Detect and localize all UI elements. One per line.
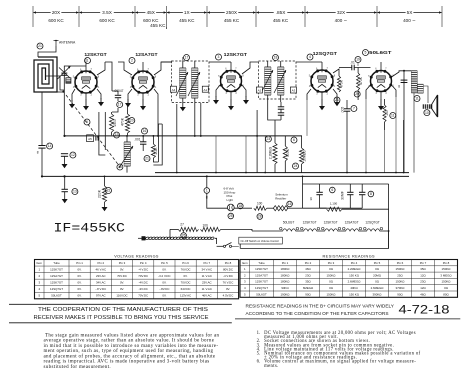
svg-text:100: 100	[257, 202, 263, 206]
svg-text:500K: 500K	[286, 148, 290, 157]
svg-text:A3: A3	[292, 89, 296, 93]
svg-text:1500: 1500	[113, 119, 117, 127]
svg-text:A1: A1	[203, 88, 207, 92]
svg-text:19: 19	[356, 58, 360, 62]
svg-text:-3V.DC: -3V.DC	[139, 287, 148, 291]
svg-text:7: 7	[353, 107, 355, 111]
svg-text:3 MEGΩ: 3 MEGΩ	[440, 273, 452, 277]
svg-text:Pin 3: Pin 3	[119, 261, 126, 265]
svg-text:0V.: 0V.	[226, 287, 230, 291]
svg-text:Tube: Tube	[53, 261, 60, 265]
svg-text:12SK7GT: 12SK7GT	[50, 281, 63, 285]
svg-text:600 KC: 600 KC	[48, 18, 64, 23]
svg-text:1X: 1X	[184, 10, 191, 15]
svg-text:455 KC: 455 KC	[150, 23, 166, 28]
svg-text:A5: A5	[88, 137, 92, 141]
svg-text:2.2MEGΩ: 2.2MEGΩ	[348, 267, 362, 271]
svg-text:19: 19	[115, 133, 119, 137]
svg-text:.005: .005	[340, 107, 344, 114]
svg-text:Rectifier: Rectifier	[275, 196, 286, 200]
svg-text:23V.AC: 23V.AC	[202, 281, 212, 285]
svg-text:220K: 220K	[97, 189, 101, 198]
svg-text:1: 1	[87, 59, 89, 63]
svg-text:VOLTAGE READINGS: VOLTAGE READINGS	[114, 254, 159, 258]
svg-text:RESISTANCE READINGS IN THE B+: RESISTANCE READINGS IN THE B+ CIRCUITS M…	[246, 304, 395, 309]
svg-text:28: 28	[258, 215, 262, 219]
svg-text:150KΩ: 150KΩ	[327, 292, 337, 296]
svg-text:4-72-18: 4-72-18	[399, 303, 450, 316]
svg-text:150KΩ: 150KΩ	[396, 280, 406, 284]
svg-text:35Ω: 35Ω	[305, 280, 311, 284]
svg-text:470K: 470K	[121, 117, 125, 126]
svg-text:24: 24	[294, 164, 298, 168]
svg-text:ments.: ments.	[264, 364, 279, 369]
svg-text:6MEGΩ: 6MEGΩ	[303, 286, 314, 290]
svg-text:12SK7GT: 12SK7GT	[324, 221, 338, 225]
svg-text:150: 150	[385, 110, 389, 116]
svg-text:12SA7GT: 12SA7GT	[255, 273, 268, 277]
svg-text:THE COOPERATION OF THE MANUFAC: THE COOPERATION OF THE MANUFACTURER OF T…	[38, 307, 209, 313]
svg-text:190KΩ: 190KΩ	[281, 292, 291, 296]
svg-text:25Ω: 25Ω	[397, 273, 403, 277]
svg-text:23Ω: 23Ω	[305, 273, 311, 277]
svg-text:470K: 470K	[340, 79, 344, 88]
svg-text:.001: .001	[134, 138, 140, 142]
svg-text:30: 30	[309, 197, 313, 201]
svg-text:150KΩ: 150KΩ	[396, 267, 406, 271]
svg-text:12SK7GT: 12SK7GT	[50, 268, 63, 272]
svg-text:116V.DC: 116V.DC	[116, 294, 127, 298]
svg-text:20: 20	[130, 119, 134, 123]
svg-text:250X: 250X	[226, 10, 238, 15]
svg-text:34 V.AC: 34 V.AC	[202, 268, 213, 272]
svg-text:11 V.AC: 11 V.AC	[202, 274, 212, 278]
svg-text:0V.: 0V.	[184, 274, 188, 278]
svg-text:0V.: 0V.	[120, 281, 124, 285]
svg-text:400 ∼: 400 ∼	[335, 18, 348, 23]
svg-text:470K: 470K	[359, 76, 363, 85]
svg-text:ACCORDING TO THE CONDITION OF: ACCORDING TO THE CONDITION OF THE FILTER…	[246, 311, 389, 316]
svg-text:ANTENNA: ANTENNA	[59, 41, 76, 45]
svg-text:0V.: 0V.	[162, 281, 166, 285]
svg-text:12SA7GT: 12SA7GT	[135, 52, 157, 57]
svg-text:20X: 20X	[52, 10, 61, 15]
svg-text:150KΩ: 150KΩ	[442, 280, 452, 284]
svg-text:4.5V.DC: 4.5V.DC	[223, 294, 234, 298]
svg-text:Pin 6: Pin 6	[397, 261, 404, 265]
svg-text:113V.AC: 113V.AC	[180, 294, 191, 298]
svg-text:45X: 45X	[147, 10, 156, 15]
svg-text:12SQ7GT: 12SQ7GT	[313, 51, 338, 56]
svg-text:2.6MEGΩ: 2.6MEGΩ	[348, 280, 362, 284]
svg-text:70V.DC: 70V.DC	[181, 281, 191, 285]
svg-text:.85X: .85X	[276, 10, 287, 15]
svg-text:0V.: 0V.	[120, 268, 124, 272]
svg-text:5: 5	[365, 51, 367, 55]
svg-text:0V.: 0V.	[162, 268, 166, 272]
svg-text:Pin 4: Pin 4	[351, 261, 358, 265]
svg-text:11 V.AC: 11 V.AC	[202, 287, 212, 291]
svg-text:12Ω: 12Ω	[420, 286, 426, 290]
svg-text:50L6GT: 50L6GT	[256, 292, 267, 296]
svg-text:8: 8	[37, 151, 39, 155]
svg-text:4: 4	[309, 55, 311, 59]
svg-text:.01: .01	[350, 61, 355, 65]
svg-text:180KΩ: 180KΩ	[281, 273, 291, 277]
svg-text:12SK7GT: 12SK7GT	[303, 221, 317, 225]
svg-text:46Ω: 46Ω	[305, 267, 311, 271]
svg-text:12SA7GT: 12SA7GT	[50, 274, 63, 278]
svg-text:8: 8	[370, 192, 372, 196]
svg-text:0V.: 0V.	[78, 287, 82, 291]
svg-text:Pin 7: Pin 7	[204, 261, 211, 265]
svg-text:16: 16	[288, 202, 292, 206]
svg-text:RECEIVER MAKES IT POSSIBLE TO: RECEIVER MAKES IT POSSIBLE TO BRING YOU …	[34, 315, 210, 321]
svg-text:Pin 5: Pin 5	[374, 261, 381, 265]
svg-text:RESISTANCE READINGS: RESISTANCE READINGS	[323, 254, 376, 258]
svg-text:70V.DC: 70V.DC	[138, 294, 148, 298]
svg-text:20: 20	[355, 92, 359, 96]
svg-text:150 KΩ: 150 KΩ	[349, 292, 360, 296]
svg-text:0V.: 0V.	[78, 274, 82, 278]
svg-text:-4 V.DC: -4 V.DC	[138, 268, 148, 272]
svg-text:455 KC: 455 KC	[224, 18, 240, 23]
svg-text:Pin 1: Pin 1	[76, 261, 83, 265]
svg-text:90Ω: 90Ω	[305, 292, 311, 296]
svg-text:34V.AC: 34V.AC	[96, 281, 106, 285]
svg-text:Item: Item	[242, 261, 248, 265]
svg-text:90KΩ: 90KΩ	[281, 286, 289, 290]
svg-text:Pin 5: Pin 5	[161, 261, 168, 265]
svg-text:IF=455KC: IF=455KC	[54, 222, 126, 236]
svg-text:0V.: 0V.	[78, 268, 82, 272]
svg-text:Pin 2: Pin 2	[305, 261, 312, 265]
svg-text:97V.AC: 97V.AC	[96, 294, 106, 298]
svg-text:46V.AC: 46V.AC	[202, 294, 212, 298]
svg-text:150KΩ: 150KΩ	[327, 273, 337, 277]
svg-text:21: 21	[38, 44, 42, 48]
svg-text:3.5X: 3.5X	[102, 10, 113, 15]
svg-text:600 KC: 600 KC	[99, 18, 115, 23]
svg-text:180KΩ: 180KΩ	[281, 267, 291, 271]
svg-text:Pin 3: Pin 3	[328, 261, 335, 265]
svg-text:23: 23	[267, 137, 271, 141]
svg-text:80Ω: 80Ω	[443, 292, 449, 296]
svg-text:6: 6	[86, 120, 88, 124]
svg-text:12SK7GT: 12SK7GT	[84, 52, 106, 57]
svg-text:2: 2	[131, 59, 133, 63]
svg-text:1: 1	[206, 189, 208, 193]
svg-text:180KΩ: 180KΩ	[281, 280, 291, 284]
svg-text:Pin 7: Pin 7	[420, 261, 427, 265]
svg-text:30MF: 30MF	[340, 191, 344, 200]
svg-text:12SK7GT: 12SK7GT	[224, 52, 247, 57]
svg-text:21: 21	[335, 98, 339, 102]
svg-text:46Ω: 46Ω	[420, 292, 426, 296]
svg-text:8: 8	[398, 85, 400, 89]
svg-text:Tube: Tube	[258, 261, 265, 265]
svg-text:10: 10	[425, 111, 429, 115]
svg-text:40KΩ: 40KΩ	[350, 286, 358, 290]
svg-text:Pin 1: Pin 1	[282, 261, 289, 265]
svg-text:12SQ7GT: 12SQ7GT	[50, 287, 63, 291]
svg-text:50L6GT: 50L6GT	[369, 50, 391, 55]
svg-text:64V.DC: 64V.DC	[181, 287, 191, 291]
svg-text:13: 13	[73, 190, 77, 194]
svg-text:Pin 8: Pin 8	[225, 261, 232, 265]
svg-text:50L6GT: 50L6GT	[283, 221, 295, 225]
svg-text:On-Off Switch on Volume Contro: On-Off Switch on Volume Control	[241, 239, 280, 243]
svg-text:6: 6	[331, 188, 333, 192]
svg-text:10MEG: 10MEG	[302, 150, 306, 162]
svg-text:12Ω: 12Ω	[420, 273, 426, 277]
svg-text:12: 12	[71, 153, 75, 157]
svg-text:Pin 6: Pin 6	[182, 261, 189, 265]
svg-text:90Ω: 90Ω	[397, 292, 403, 296]
svg-text:12SA7GT: 12SA7GT	[345, 221, 359, 225]
svg-text:23V.AC: 23V.AC	[96, 274, 106, 278]
svg-text:17: 17	[118, 103, 122, 107]
svg-text:-.8 V.DC: -.8 V.DC	[95, 287, 106, 291]
svg-text:5.: 5.	[257, 352, 261, 357]
svg-text:455 KC: 455 KC	[273, 18, 289, 23]
svg-text:substituted for measurement.: substituted for measurement.	[44, 365, 111, 370]
svg-text:Volume control at maximum, no: Volume control at maximum, no signal app…	[264, 360, 416, 365]
svg-text:21: 21	[145, 157, 149, 161]
svg-text:11: 11	[415, 97, 419, 101]
svg-text:0V.: 0V.	[162, 294, 166, 298]
svg-text:35Ω: 35Ω	[420, 267, 426, 271]
svg-text:70V.DC: 70V.DC	[117, 274, 127, 278]
svg-text:18: 18	[274, 56, 278, 60]
svg-text:76V.DC: 76V.DC	[181, 268, 191, 272]
svg-text:150 KΩ: 150 KΩ	[349, 273, 360, 277]
svg-text:23Ω: 23Ω	[420, 280, 426, 284]
svg-text:A2: A2	[258, 89, 262, 93]
svg-text:6.: 6.	[257, 360, 261, 365]
svg-text:455 KC: 455 KC	[179, 18, 195, 23]
svg-text:2.2MEG: 2.2MEG	[268, 146, 272, 159]
svg-text:12SK7GT: 12SK7GT	[255, 280, 268, 284]
svg-text:370KΩ: 370KΩ	[396, 286, 406, 290]
svg-text:17: 17	[185, 56, 189, 60]
svg-text:12SK7GT: 12SK7GT	[255, 267, 268, 271]
svg-text:27: 27	[180, 222, 184, 226]
svg-text:1,100: 1,100	[330, 202, 338, 206]
svg-text:32X: 32X	[337, 10, 346, 15]
svg-text:25: 25	[229, 214, 233, 218]
svg-text:46 V.AC: 46 V.AC	[96, 268, 107, 272]
svg-text:-3.2 V.DC: -3.2 V.DC	[158, 274, 170, 278]
svg-text:12SQ7GT: 12SQ7GT	[365, 221, 379, 225]
svg-text:0V.: 0V.	[78, 281, 82, 285]
svg-text:400 ∼: 400 ∼	[403, 18, 416, 23]
svg-text:390KΩ: 390KΩ	[373, 292, 383, 296]
svg-text:20MΩ: 20MΩ	[373, 273, 382, 277]
svg-text:18: 18	[118, 165, 122, 169]
svg-text:-.8V.DC: -.8V.DC	[159, 287, 169, 291]
svg-text:18: 18	[238, 204, 242, 208]
svg-text:0V.: 0V.	[78, 294, 82, 298]
svg-text:70V.DC: 70V.DC	[138, 274, 148, 278]
svg-text:3: 3	[218, 55, 220, 59]
svg-text:A4: A4	[172, 88, 176, 92]
svg-text:22: 22	[107, 189, 111, 193]
svg-text:0V.: 0V.	[120, 287, 124, 291]
svg-text:Light: Light	[227, 198, 234, 202]
svg-text:6: 6	[293, 138, 295, 142]
svg-text:16: 16	[143, 129, 147, 133]
svg-text:2.6MEGΩ: 2.6MEGΩ	[371, 286, 385, 290]
svg-text:-4V.DC: -4V.DC	[139, 281, 148, 285]
svg-text:-4 V.DC: -4 V.DC	[223, 274, 233, 278]
svg-text:1.: 1.	[257, 331, 261, 336]
svg-text:80V.DC: 80V.DC	[223, 268, 233, 272]
svg-text:Item: Item	[36, 261, 42, 265]
svg-text:2.2K: 2.2K	[154, 147, 158, 155]
svg-text:76 V.DC: 76 V.DC	[223, 281, 234, 285]
svg-text:Pin 4: Pin 4	[140, 261, 147, 265]
svg-text:14: 14	[48, 144, 52, 148]
svg-text:Pin 2: Pin 2	[98, 261, 105, 265]
svg-text:12SQ7GT: 12SQ7GT	[255, 286, 268, 290]
svg-text:11: 11	[391, 114, 395, 118]
svg-text:Pin 8: Pin 8	[443, 261, 450, 265]
svg-text:50L6GT: 50L6GT	[51, 294, 62, 298]
svg-text:5X: 5X	[407, 10, 414, 15]
svg-text:150KΩ: 150KΩ	[442, 267, 452, 271]
